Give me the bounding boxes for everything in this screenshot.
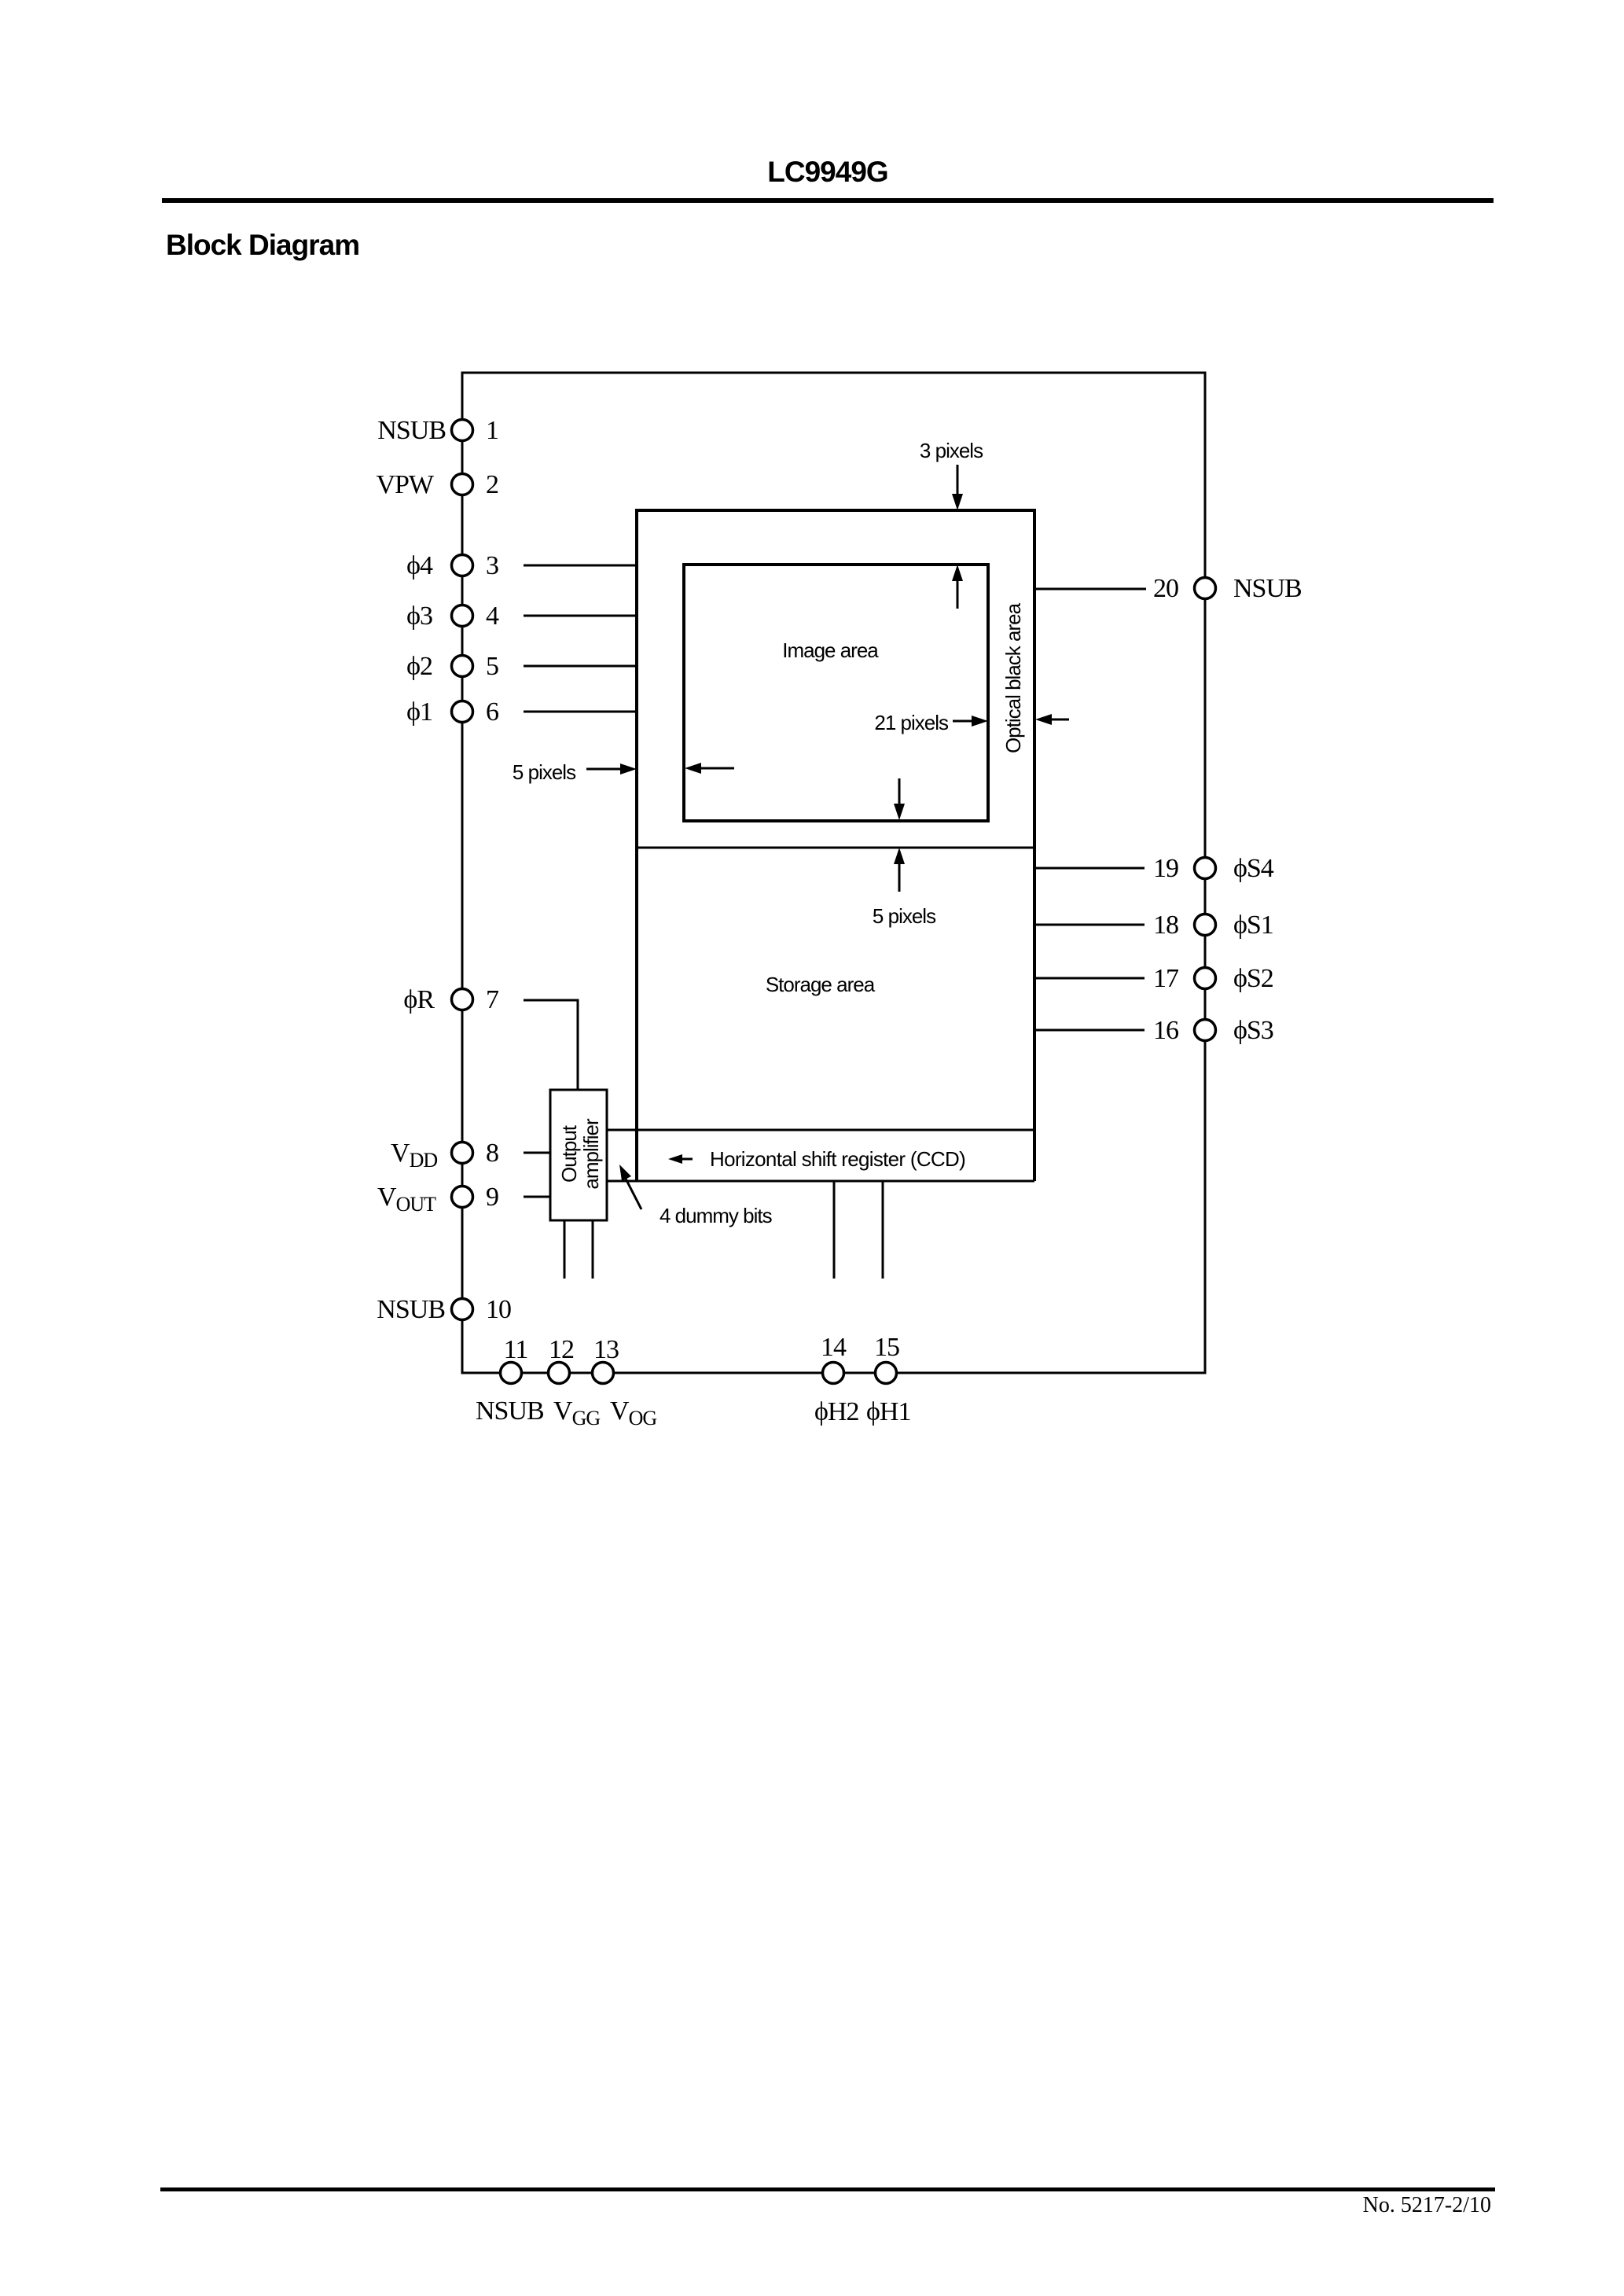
svg-text:Optical black area: Optical black area: [1001, 602, 1025, 753]
pin 2 VPW: [376, 470, 498, 499]
svg-text:NSUB: NSUB: [1233, 574, 1302, 603]
svg-text:ϕH1: ϕH1: [866, 1397, 910, 1426]
svg-text:VPW: VPW: [376, 470, 434, 499]
pin 20 NSUB: [1153, 574, 1302, 603]
svg-text:Output: Output: [557, 1124, 581, 1183]
outer boundary rectangle: [462, 373, 1205, 1373]
wire pin6 stub: [524, 711, 637, 713]
svg-text:Image area: Image area: [782, 638, 879, 662]
pin 6 phi1: [406, 697, 498, 727]
sensor block right edge: [1033, 509, 1036, 1181]
svg-text:2: 2: [486, 470, 498, 499]
svg-text:ϕS4: ϕS4: [1233, 854, 1274, 883]
wire pin17 stub: [1034, 977, 1145, 980]
svg-text:Storage area: Storage area: [766, 973, 876, 996]
wire pin8 stub: [524, 1152, 550, 1154]
horizontal shift register label with arrow: [668, 1147, 965, 1171]
svg-text:7: 7: [486, 985, 499, 1014]
svg-text:ϕS2: ϕS2: [1233, 964, 1273, 993]
pin 16 phiS3: [1153, 1016, 1273, 1045]
pin 4 phi3: [406, 602, 499, 631]
storage area separator line: [637, 847, 1034, 849]
pin 18 phiS1: [1153, 911, 1273, 940]
sensor block left edge: [635, 509, 638, 1181]
svg-text:ϕS1: ϕS1: [1233, 911, 1273, 940]
svg-text:NSUB: NSUB: [377, 416, 446, 445]
header rule: [162, 198, 1494, 203]
svg-text:ϕ3: ϕ3: [406, 602, 432, 631]
svg-text:5: 5: [486, 652, 498, 681]
image area top margin arrow: [952, 565, 963, 609]
image area bottom margin arrow: [894, 778, 905, 820]
svg-text:Horizontal shift register (CCD: Horizontal shift register (CCD): [710, 1147, 965, 1171]
pin 10 NSUB: [377, 1295, 511, 1324]
wire pin7 stub: [524, 1000, 578, 1090]
pin 8 VDD: [391, 1139, 498, 1172]
3 pixels dimension label: [920, 439, 983, 510]
svg-text:ϕR: ϕR: [403, 985, 435, 1014]
svg-text:21 pixels: 21 pixels: [874, 711, 949, 734]
svg-text:amplifier: amplifier: [579, 1118, 603, 1190]
svg-text:9: 9: [486, 1183, 498, 1212]
svg-text:NSUB: NSUB: [377, 1295, 445, 1324]
svg-text:10: 10: [486, 1295, 511, 1324]
5 pixels left dimension label: [513, 760, 637, 784]
pin 11 NSUB: [476, 1335, 544, 1426]
pin 14 phiH2: [814, 1333, 858, 1426]
wire pin4 stub: [524, 615, 637, 617]
svg-text:18: 18: [1153, 911, 1178, 940]
image area left margin arrow: [685, 763, 734, 774]
wire pin20 stub: [1034, 588, 1146, 591]
svg-text:5 pixels: 5 pixels: [513, 760, 576, 784]
svg-text:5 pixels: 5 pixels: [873, 904, 936, 928]
wire amplifier output right: [592, 1220, 594, 1279]
svg-text:4: 4: [486, 602, 499, 631]
sensor block top edge: [635, 509, 1034, 512]
svg-text:12: 12: [549, 1335, 574, 1364]
svg-text:16: 16: [1153, 1016, 1178, 1045]
svg-text:1: 1: [486, 416, 498, 445]
pin 17 phiS2: [1153, 964, 1273, 993]
svg-text:4 dummy bits: 4 dummy bits: [660, 1204, 773, 1227]
svg-text:19: 19: [1153, 854, 1178, 883]
svg-text:ϕH2: ϕH2: [814, 1397, 858, 1426]
output amplifier U1 box: [550, 1090, 607, 1220]
svg-text:20: 20: [1153, 574, 1178, 603]
svg-text:No. 5217-2/10: No. 5217-2/10: [1363, 2193, 1491, 2217]
svg-text:8: 8: [486, 1139, 498, 1168]
wire amplifier output left: [564, 1220, 566, 1279]
svg-text:13: 13: [593, 1335, 619, 1364]
svg-text:6: 6: [486, 697, 498, 727]
image area box: [684, 565, 988, 821]
svg-text:14: 14: [821, 1333, 847, 1362]
svg-text:Block Diagram: Block Diagram: [166, 229, 359, 261]
footer rule: [160, 2187, 1495, 2191]
svg-text:3: 3: [486, 551, 498, 580]
optical black right margin arrow: [1035, 714, 1069, 725]
pin 13 VOG: [593, 1335, 657, 1429]
wire pin3 stub: [524, 565, 637, 567]
svg-text:NSUB: NSUB: [476, 1396, 544, 1426]
svg-text:LC9949G: LC9949G: [767, 156, 887, 188]
pin 1 NSUB: [377, 416, 498, 445]
wire pin18 stub: [1034, 924, 1145, 926]
pin 15 phiH1: [866, 1333, 910, 1426]
wire pin9 stub: [524, 1196, 550, 1198]
wire shift register phiH1: [882, 1181, 884, 1279]
wire shift register phiH2: [833, 1181, 836, 1279]
svg-text:17: 17: [1153, 964, 1179, 993]
svg-text:ϕS3: ϕS3: [1233, 1016, 1273, 1045]
svg-text:3 pixels: 3 pixels: [920, 439, 983, 462]
pin 7 phiR: [403, 985, 499, 1014]
pin 9 VOUT: [377, 1183, 498, 1216]
horizontal shift register bottom line: [607, 1180, 1034, 1183]
wire pin5 stub: [524, 665, 637, 668]
wire pin16 stub: [1034, 1029, 1145, 1032]
svg-text:11: 11: [504, 1335, 528, 1364]
21 pixels dimension label: [874, 711, 988, 734]
pin 3 phi4: [406, 551, 498, 580]
4 dummy bits label: [619, 1165, 773, 1227]
pin 5 phi2: [406, 652, 498, 681]
storage top margin arrow: [894, 848, 905, 892]
svg-text:ϕ2: ϕ2: [406, 652, 432, 681]
wire pin19 stub: [1034, 867, 1145, 870]
pin 12 VGG: [549, 1335, 601, 1429]
pin 19 phiS4: [1153, 854, 1274, 883]
svg-text:ϕ4: ϕ4: [406, 551, 433, 580]
svg-text:ϕ1: ϕ1: [406, 697, 432, 727]
svg-text:15: 15: [874, 1333, 899, 1362]
horizontal shift register top line: [607, 1129, 1034, 1131]
